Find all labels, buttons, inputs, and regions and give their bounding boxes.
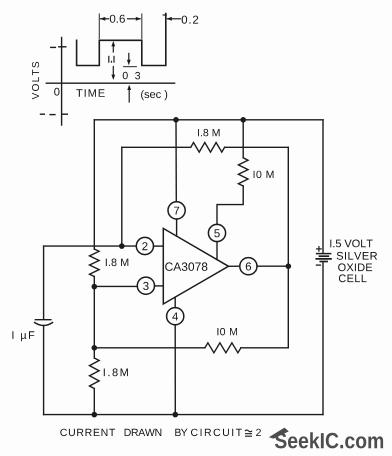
node bottom wire pin4 junction [173, 412, 179, 418]
outer top supply wire [94, 119, 323, 121]
1.1 dimension arrows [111, 41, 115, 80]
caption 2 microamps [256, 429, 261, 436]
wire capacitor branch top [43, 246, 45, 319]
bottom ground wire [44, 414, 323, 416]
wire feedback top right segment [225, 146, 289, 148]
node junction top wire to pin7 [173, 117, 179, 123]
resistor 10M bottom [205, 343, 241, 353]
pin number 7 [174, 207, 179, 215]
resistor 1.8M left lower [90, 358, 100, 389]
axis label 1 [51, 46, 56, 48]
value label 1.8M top [198, 129, 220, 136]
wire feedback top left segment [122, 146, 191, 148]
dim label 0.6 [110, 15, 125, 23]
resistor 10M top [238, 158, 248, 186]
value label 1uF [12, 331, 34, 341]
part label CA3078 [165, 262, 207, 271]
wire 10M bottom horizontal left [94, 347, 205, 349]
axis label -1 [41, 113, 55, 115]
dim label 0 3 [123, 72, 128, 80]
pin number 3 [143, 282, 149, 290]
wire 10M top to pin5 elbow [217, 186, 243, 224]
0.6 dimension arrows [100, 17, 141, 21]
node junction top wire to 10M [240, 117, 246, 123]
dim label 1.1 drawn strokes [109, 56, 114, 62]
0.3 dimension arrows [127, 53, 131, 102]
watermark SeekIC.com logo swoosh [269, 428, 289, 439]
axis label (sec) [141, 90, 167, 100]
pin 3 circle [137, 277, 154, 294]
axis label TIME [76, 89, 105, 97]
wire pin5 to op-amp [216, 242, 218, 260]
wire pin2 horizontal [44, 245, 164, 247]
capacitor C1 1uF [35, 320, 53, 326]
axis label VOLTS [32, 62, 39, 100]
wire pin6 output [229, 265, 289, 267]
resistor 1.8M left upper [90, 249, 100, 277]
axis label 0 [54, 88, 59, 96]
node pin6 feedback junction [286, 263, 292, 269]
extension line right of 0.6 dim [141, 14, 143, 39]
pin number 6 [246, 262, 251, 270]
0.3 reference line [124, 66, 137, 68]
outer left wire upper segment [93, 120, 95, 249]
node 10M bottom junction [92, 345, 98, 351]
wire pin4 from op-amp [174, 297, 176, 308]
waveform square wave trace [77, 14, 166, 66]
extension line left of 0.6 dim [98, 14, 100, 39]
wire pin7 vertical upper [175, 120, 177, 202]
wire pin4 vertical lower [174, 325, 176, 415]
node bottom wire left junction [92, 412, 98, 418]
pin 5 circle [208, 224, 225, 241]
pin 2 circle [136, 237, 153, 254]
battery plus sign [317, 247, 322, 252]
pin number 4 [172, 313, 178, 321]
pin 4 circle [167, 308, 184, 325]
caption approx equal sign [245, 430, 252, 436]
pin 7 circle [168, 202, 185, 219]
value label 1.8M left lower [104, 368, 128, 376]
pin number 2 [142, 242, 147, 250]
battery label OXIDE [338, 263, 372, 271]
value label 10M bottom [217, 328, 237, 336]
battery label 1.5 VOLT [330, 240, 372, 248]
0.2 dimension arrow [163, 15, 180, 21]
wire battery negative vertical [322, 262, 324, 414]
wire inner right vertical [287, 147, 289, 347]
dim label 0.2 [182, 16, 199, 24]
wire capacitor branch bottom [43, 326, 45, 415]
battery BT1 1.5V silver oxide cell [316, 254, 331, 262]
wire inner left vertical [121, 147, 123, 246]
wire pin3 horizontal [94, 285, 163, 288]
wire pin7 to op-amp [176, 219, 178, 236]
wire 10M top vertical upper [242, 120, 244, 158]
battery minus sign [316, 264, 320, 266]
caption CURRENT DRAWN BY CIRCUIT [60, 429, 115, 436]
wire 10M bottom horizontal right [241, 347, 288, 349]
pin 6 circle [240, 258, 257, 275]
battery label CELL [339, 274, 367, 282]
node pin3 junction [92, 284, 98, 290]
wire left chain bottom [93, 389, 95, 415]
wire battery positive vertical [322, 120, 324, 253]
waveform time axis [46, 82, 174, 84]
resistor 1.8M feedback top [191, 143, 225, 153]
op-amp U1 CA3078 triangle [163, 228, 228, 304]
battery label SILVER [337, 252, 377, 260]
wire left chain middle [93, 277, 95, 359]
value label 1.8M left upper [106, 259, 129, 267]
value label 10M top [254, 171, 274, 178]
watermark SeekIC.com [275, 432, 383, 448]
pin number 5 [214, 229, 219, 237]
node pin2 junction [119, 243, 125, 249]
waveform volt axis [59, 38, 68, 126]
